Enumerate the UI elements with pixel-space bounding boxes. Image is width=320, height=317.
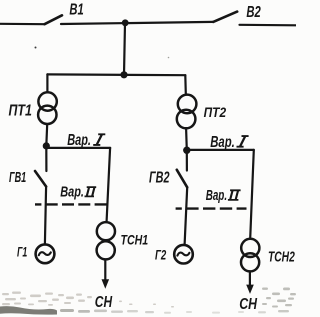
generator G2 circle xyxy=(174,245,193,264)
breaker B2 blade xyxy=(213,12,237,22)
wire GV1 to G1 xyxy=(45,187,46,245)
wire PT2 feed xyxy=(184,75,187,94)
svg-text:ТСН1: ТСН1 xyxy=(121,232,149,247)
svg-text:Г2: Г2 xyxy=(155,247,167,262)
wire bus dropper xyxy=(124,23,125,75)
wire bus left segment xyxy=(0,23,45,26)
stray ink speck xyxy=(35,47,37,49)
svg-text:Вар.: Вар. xyxy=(67,132,91,149)
wire left branch vertical xyxy=(107,148,111,221)
generator G2 tilde xyxy=(177,253,189,256)
junction bus top xyxy=(122,19,129,26)
wire TSN1 arrow stem xyxy=(104,260,106,281)
wire PT1 feed xyxy=(46,74,48,92)
arrow head SN left xyxy=(102,279,110,288)
transformer PT2 xyxy=(178,95,197,114)
wire GV2 stub xyxy=(186,150,188,170)
transformer PT1 xyxy=(38,92,56,110)
wire branch horizontal xyxy=(47,73,185,76)
wire bus middle segment xyxy=(61,22,213,24)
svg-text:СН: СН xyxy=(95,294,113,311)
svg-text:СН: СН xyxy=(239,296,257,313)
svg-text:Вар.: Вар. xyxy=(60,184,84,201)
arrow head SN right xyxy=(246,285,254,294)
transformer TSN2 xyxy=(241,239,259,257)
wire Var.I left horizontal xyxy=(46,147,110,149)
breaker B1 blade xyxy=(45,15,63,24)
wire TSN2 arrow stem xyxy=(249,272,251,287)
node A junction xyxy=(43,142,50,149)
wire right branch vertical xyxy=(250,150,254,239)
wire PT2 to node B xyxy=(185,129,188,151)
wire GV2 to G2 xyxy=(185,187,188,244)
switch GV1 blade xyxy=(35,171,46,187)
scan noise bottom right speckles xyxy=(262,288,296,308)
scan noise bottom left xyxy=(2,292,174,308)
svg-text:ГВ1: ГВ1 xyxy=(9,170,26,186)
svg-text:ПТ2: ПТ2 xyxy=(204,105,227,120)
svg-text:ТСН2: ТСН2 xyxy=(268,250,295,266)
switch GV2 blade xyxy=(177,170,187,188)
junction branch mid xyxy=(120,71,127,78)
svg-text:В1: В1 xyxy=(69,2,83,19)
svg-text:Вар.: Вар. xyxy=(206,187,227,204)
wire PT1 to node A xyxy=(45,124,48,146)
generator G1 circle xyxy=(36,244,55,263)
wire Var.I right horizontal xyxy=(187,149,254,151)
node B junction xyxy=(183,147,190,154)
variant II dashed line left xyxy=(35,203,107,205)
wire bus right segment xyxy=(240,24,297,27)
wire GV1 stub xyxy=(45,146,47,171)
generator G1 tilde xyxy=(39,252,51,255)
variant II dashed line right xyxy=(176,207,247,209)
svg-text:Г1: Г1 xyxy=(17,244,27,259)
svg-text:В2: В2 xyxy=(246,4,261,21)
scan noise bottom band xyxy=(0,306,289,314)
svg-text:ПТ1: ПТ1 xyxy=(9,102,32,119)
svg-text:ГВ2: ГВ2 xyxy=(149,170,170,187)
transformer TSN1 xyxy=(97,222,115,240)
svg-text:Вар.: Вар. xyxy=(210,134,235,151)
